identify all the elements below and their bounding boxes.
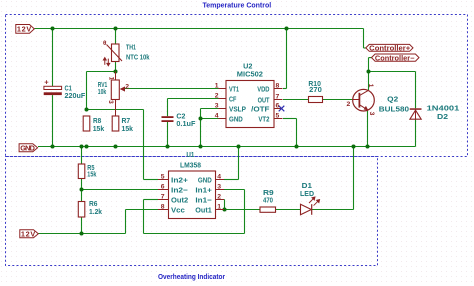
svg-text:In1+: In1+ (195, 186, 212, 195)
svg-text:10k: 10k (98, 87, 107, 96)
svg-text:Overheating Indicator: Overheating Indicator (158, 272, 225, 281)
svg-text:1.2k: 1.2k (89, 207, 103, 216)
svg-text:BUL580: BUL580 (379, 104, 409, 113)
svg-text:Controller−: Controller− (375, 55, 415, 62)
svg-text:LED: LED (300, 189, 315, 198)
svg-text:+: + (44, 78, 49, 87)
svg-text:7: 7 (276, 94, 280, 101)
svg-text:LM358: LM358 (180, 160, 201, 169)
svg-text:GND: GND (198, 176, 212, 185)
svg-text:5: 5 (276, 113, 280, 120)
svg-text:2: 2 (217, 194, 221, 201)
svg-text:NTC 10k: NTC 10k (126, 53, 150, 62)
svg-text:2: 2 (347, 101, 351, 108)
svg-text:In2+: In2+ (171, 176, 189, 185)
svg-text:In2−: In2− (171, 186, 189, 195)
svg-text:Vcc: Vcc (171, 206, 185, 215)
svg-text:1: 1 (107, 77, 114, 81)
svg-text:Controller+: Controller+ (369, 45, 410, 52)
svg-text:VT1: VT1 (229, 85, 239, 94)
svg-text:VT2: VT2 (258, 115, 269, 124)
svg-text:1: 1 (215, 83, 219, 90)
svg-text:Out2: Out2 (171, 196, 188, 205)
svg-text:OUT: OUT (258, 96, 270, 105)
svg-text:15k: 15k (93, 124, 105, 133)
svg-text:470: 470 (263, 196, 273, 205)
svg-text:12V: 12V (21, 230, 36, 239)
svg-text:15k: 15k (122, 124, 134, 133)
svg-text:GND: GND (20, 144, 35, 153)
svg-text:VDD: VDD (257, 85, 270, 94)
svg-text:12V: 12V (17, 25, 32, 34)
svg-text:5: 5 (161, 174, 165, 181)
svg-text:2: 2 (215, 93, 219, 100)
svg-text:8: 8 (161, 204, 165, 211)
svg-text:270: 270 (309, 85, 322, 94)
svg-text:3: 3 (368, 112, 375, 116)
svg-text:Out1: Out1 (195, 206, 212, 215)
svg-text:7: 7 (161, 194, 165, 201)
svg-text:220uF: 220uF (65, 91, 86, 100)
svg-text:CF: CF (229, 95, 237, 104)
svg-text:6: 6 (276, 103, 280, 110)
svg-text:4: 4 (215, 113, 219, 120)
svg-text:D2: D2 (437, 112, 448, 121)
svg-text:0.1uF: 0.1uF (176, 119, 195, 128)
svg-text:TH1: TH1 (126, 42, 136, 51)
svg-text:8: 8 (276, 83, 280, 90)
svg-text:3: 3 (107, 100, 114, 104)
svg-text:GND: GND (229, 115, 243, 124)
svg-text:3: 3 (217, 184, 221, 191)
svg-text:In1−: In1− (195, 196, 212, 205)
svg-text:4: 4 (217, 174, 221, 181)
svg-text:6: 6 (161, 184, 165, 191)
svg-text:1: 1 (217, 204, 221, 211)
svg-text:Temperature Control: Temperature Control (203, 0, 272, 9)
svg-text:VSLP: VSLP (229, 105, 246, 114)
svg-text:2: 2 (125, 84, 129, 91)
svg-text:Q2: Q2 (387, 94, 398, 103)
svg-text:MIC502: MIC502 (237, 70, 263, 79)
svg-text:1: 1 (367, 84, 374, 88)
svg-text:U1: U1 (186, 150, 194, 159)
svg-text:3: 3 (215, 103, 219, 110)
svg-text:15k: 15k (87, 169, 97, 178)
svg-text:/OTF: /OTF (251, 105, 270, 114)
